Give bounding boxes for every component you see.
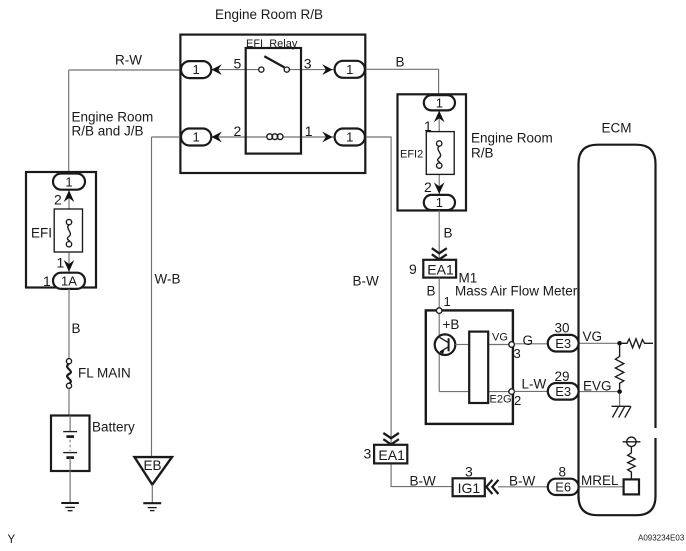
connector chevrons into EA1 (down) bbox=[432, 248, 447, 259]
battery bbox=[51, 416, 90, 472]
svg-text:FL MAIN: FL MAIN bbox=[78, 366, 131, 381]
wire sensing element to node 3 bbox=[488, 344, 511, 346]
ground (battery) bbox=[61, 503, 79, 511]
relay outer box (Engine Room R/B) bbox=[180, 35, 365, 173]
svg-text:E3: E3 bbox=[555, 384, 571, 399]
arrowhead row2 left bbox=[212, 132, 222, 143]
wire L-W (node 2 to E3) bbox=[514, 390, 548, 392]
svg-text:1: 1 bbox=[65, 174, 72, 189]
wire row2 arrow to relay bbox=[212, 136, 246, 138]
node 2 bbox=[509, 389, 521, 408]
transistor (+B supply) bbox=[435, 334, 456, 355]
wire transistor to sensing element bbox=[455, 344, 469, 346]
svg-text:EFI2: EFI2 bbox=[400, 149, 423, 161]
wire EFI2 fuse top lead bbox=[438, 110, 440, 131]
label Engine Room R/B and J/B bbox=[72, 110, 154, 139]
wire B run (relay to EFI2) bbox=[365, 69, 438, 95]
arrowhead row1 left bbox=[212, 64, 222, 75]
wire row1 right segment bbox=[301, 69, 335, 71]
wire W-B vertical bbox=[151, 137, 153, 456]
relay coil bbox=[267, 134, 283, 140]
resistor (MREL, vertical) bbox=[628, 447, 635, 480]
svg-text:EA1: EA1 bbox=[427, 262, 454, 278]
svg-text:L-W: L-W bbox=[522, 377, 547, 392]
resistor (VG-EVG, vertical) bbox=[615, 346, 623, 390]
connector oval EFI2 bottom "1" bbox=[424, 195, 455, 210]
svg-text:1: 1 bbox=[444, 294, 451, 309]
junction connector IG1 bbox=[453, 478, 485, 496]
wire row2 right segment bbox=[301, 136, 335, 138]
wire row1 inside relay bbox=[246, 69, 301, 71]
supply terminal circle bbox=[623, 437, 641, 446]
junction connector EA1 (3) bbox=[374, 445, 407, 464]
svg-text:G: G bbox=[523, 333, 534, 348]
ground (ECM internal, slashed) bbox=[612, 406, 632, 417]
mass air flow meter box M1 bbox=[426, 310, 513, 424]
MREL driver square bbox=[624, 479, 639, 494]
wire R-W vertical bbox=[68, 70, 70, 174]
ECM outline bbox=[579, 145, 656, 516]
svg-text:1A: 1A bbox=[61, 274, 77, 289]
wire EVG inside ECM bbox=[579, 391, 620, 393]
svg-text:IG1: IG1 bbox=[458, 480, 481, 496]
svg-text:1: 1 bbox=[436, 195, 443, 210]
fuse EFI2 bbox=[426, 132, 454, 175]
svg-text:1: 1 bbox=[192, 130, 199, 145]
svg-text:3: 3 bbox=[514, 346, 521, 361]
svg-text:B: B bbox=[72, 321, 81, 336]
arrowhead EFI2 pin1 up bbox=[434, 111, 445, 123]
svg-text:B: B bbox=[396, 55, 405, 70]
wire IG1 to E6 bbox=[498, 486, 548, 488]
relay inner box bbox=[246, 48, 301, 154]
svg-text:EFI: EFI bbox=[31, 226, 52, 241]
svg-text:B-W: B-W bbox=[353, 274, 380, 289]
svg-text:Mass Air Flow Meter: Mass Air Flow Meter bbox=[455, 284, 578, 299]
svg-text:E6: E6 bbox=[555, 480, 571, 495]
svg-text:1: 1 bbox=[424, 118, 432, 134]
label Engine Room R/B (right) bbox=[471, 131, 553, 161]
sensing element bbox=[469, 332, 488, 403]
svg-text:EVG: EVG bbox=[583, 379, 612, 394]
connector oval E6 (8) bbox=[548, 479, 579, 495]
fuse EFI bbox=[54, 209, 82, 252]
connector oval relay row1 right "1" bbox=[335, 61, 365, 78]
junction dot EVG bbox=[617, 389, 622, 394]
junction dot VG bbox=[617, 341, 622, 346]
connector oval EFI top "1" bbox=[53, 174, 85, 190]
wire EFI2 to EA1 bbox=[438, 210, 440, 260]
svg-text:9: 9 bbox=[409, 261, 417, 277]
svg-text:EA1: EA1 bbox=[378, 447, 405, 463]
wire MAF internal vertical bbox=[438, 313, 440, 391]
svg-text:EB: EB bbox=[144, 458, 162, 473]
svg-text:R/B and J/B: R/B and J/B bbox=[72, 124, 144, 139]
fusible link FL MAIN bbox=[66, 359, 71, 389]
svg-text:3: 3 bbox=[304, 56, 312, 72]
arrowhead row2 right bbox=[322, 132, 332, 143]
svg-text:Battery: Battery bbox=[92, 420, 135, 435]
svg-text:3: 3 bbox=[364, 446, 372, 462]
node 1 bbox=[436, 294, 450, 314]
wire battery feed B bbox=[68, 289, 70, 359]
wire EA1 to MAF node 1 bbox=[438, 278, 440, 308]
relay switch arm bbox=[264, 56, 284, 67]
wire EVG to ground bbox=[619, 394, 621, 406]
svg-text:B: B bbox=[444, 226, 453, 241]
wire EFI2 fuse bottom lead bbox=[438, 174, 440, 195]
ground (EB) bbox=[143, 503, 161, 510]
ground point EB bbox=[135, 457, 173, 485]
connector chevrons into EA1 bottom (down) bbox=[383, 433, 399, 444]
wire MREL inside ECM bbox=[579, 486, 624, 488]
svg-text:B-W: B-W bbox=[509, 474, 536, 489]
svg-text:1: 1 bbox=[57, 255, 65, 271]
svg-text:ECM: ECM bbox=[602, 121, 632, 136]
svg-text:30: 30 bbox=[555, 321, 570, 336]
svg-text:1: 1 bbox=[305, 123, 313, 139]
wire B-W run (relay to EA1) bbox=[365, 137, 391, 445]
arrowhead EFI pin1 down bbox=[64, 260, 75, 272]
svg-text:1: 1 bbox=[346, 62, 353, 77]
svg-text:29: 29 bbox=[555, 369, 570, 384]
svg-text:2: 2 bbox=[514, 393, 521, 408]
Engine Room R/B box (right, EFI2) bbox=[398, 94, 467, 210]
svg-text:2: 2 bbox=[234, 123, 242, 139]
wire G (node 3 to E3) bbox=[514, 343, 548, 345]
svg-text:1: 1 bbox=[43, 273, 51, 289]
svg-text:R/B: R/B bbox=[471, 146, 494, 161]
node 3 bbox=[509, 342, 521, 361]
connector oval E3 (29) bbox=[548, 383, 579, 400]
wire EA1 to IG1 bbox=[391, 463, 453, 486]
svg-text:2: 2 bbox=[424, 179, 432, 195]
wire EB to ground bbox=[151, 485, 153, 503]
svg-text:1: 1 bbox=[346, 130, 353, 145]
connector oval relay row2 left "1" bbox=[181, 129, 211, 146]
resistor (VG pull, horizontal) bbox=[622, 339, 653, 348]
svg-text:E2G: E2G bbox=[490, 394, 512, 406]
connector chevrons after IG1 (left) bbox=[486, 480, 498, 494]
svg-text:Engine Room: Engine Room bbox=[72, 110, 154, 125]
svg-text:VG: VG bbox=[492, 332, 508, 344]
svg-text:1: 1 bbox=[192, 62, 199, 77]
svg-text:VG: VG bbox=[583, 329, 603, 344]
wire row2 inside relay bbox=[246, 136, 301, 138]
arrowhead EFI2 pin2 down bbox=[434, 182, 445, 194]
svg-text:Y: Y bbox=[8, 534, 16, 546]
connector oval relay row1 left "1" bbox=[181, 61, 211, 78]
svg-text:8: 8 bbox=[559, 465, 567, 480]
Engine Room R/B and J/B box bbox=[26, 172, 96, 288]
svg-text:B: B bbox=[427, 284, 436, 299]
svg-text:B-W: B-W bbox=[410, 474, 437, 489]
relay switch contact circles bbox=[259, 67, 290, 72]
connector oval EFI2 top "1" bbox=[424, 95, 455, 110]
connector oval relay row2 right "1" bbox=[335, 129, 365, 146]
svg-text:+B: +B bbox=[443, 317, 460, 332]
wire EFI fuse bottom lead bbox=[68, 252, 70, 273]
svg-text:R-W: R-W bbox=[115, 53, 142, 68]
svg-text:Engine Room: Engine Room bbox=[471, 131, 553, 146]
svg-text:1: 1 bbox=[436, 95, 443, 110]
connector oval E3 (30) bbox=[548, 335, 579, 352]
wire row2 left to W-B bbox=[152, 136, 182, 138]
wire R-W horizontal bbox=[69, 69, 181, 71]
wire row1 left inner segment bbox=[212, 69, 246, 71]
svg-text:W-B: W-B bbox=[155, 272, 181, 287]
junction connector EA1 (9) bbox=[423, 260, 456, 278]
wire VG inside ECM bbox=[579, 342, 620, 344]
svg-text:Engine Room R/B: Engine Room R/B bbox=[215, 7, 323, 22]
arrowhead EFI pin2 up bbox=[64, 190, 75, 202]
wire battery to ground bbox=[69, 471, 71, 503]
wire FL MAIN to battery bbox=[68, 388, 70, 415]
connector oval EFI bottom "1A" bbox=[53, 273, 85, 289]
svg-text:E3: E3 bbox=[555, 336, 571, 351]
svg-text:5: 5 bbox=[234, 56, 242, 72]
svg-text:MREL: MREL bbox=[581, 473, 619, 488]
wire MAF internal bottom (E2G) bbox=[439, 391, 511, 393]
svg-text:A093234E03: A093234E03 bbox=[638, 534, 685, 543]
wire EFI fuse top lead bbox=[68, 190, 70, 210]
svg-text:2: 2 bbox=[54, 192, 62, 208]
arrowhead row1 right bbox=[322, 64, 332, 75]
svg-text:3: 3 bbox=[465, 464, 473, 480]
